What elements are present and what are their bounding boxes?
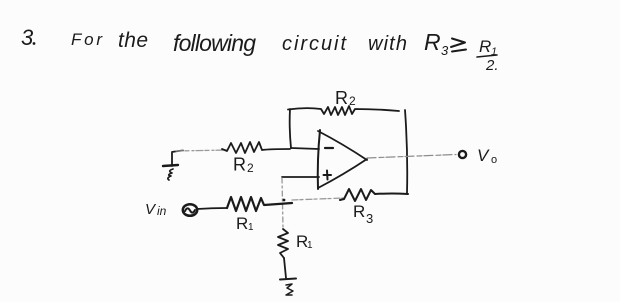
svg-text:1: 1 — [248, 222, 254, 233]
svg-text:3: 3 — [21, 25, 34, 50]
svg-text:3: 3 — [366, 211, 373, 226]
svg-text:R: R — [424, 29, 441, 55]
svg-text:circuit: circuit — [282, 33, 347, 55]
svg-text:R: R — [233, 155, 246, 175]
svg-text:in: in — [157, 204, 167, 218]
svg-text:o: o — [491, 154, 497, 166]
svg-text:R: R — [236, 214, 248, 233]
svg-text:2: 2 — [349, 94, 356, 108]
svg-text:R: R — [335, 88, 348, 108]
svg-text:the: the — [118, 29, 148, 52]
svg-text:For: For — [71, 30, 103, 49]
svg-text:2: 2 — [247, 161, 254, 175]
svg-text:following: following — [173, 30, 256, 56]
svg-text:V: V — [477, 146, 490, 165]
svg-text:3: 3 — [441, 43, 449, 58]
svg-text:R: R — [353, 202, 365, 221]
svg-text:2.: 2. — [485, 57, 499, 74]
svg-text:1: 1 — [307, 240, 313, 251]
svg-text:with: with — [368, 33, 407, 55]
svg-text:R: R — [479, 37, 491, 56]
